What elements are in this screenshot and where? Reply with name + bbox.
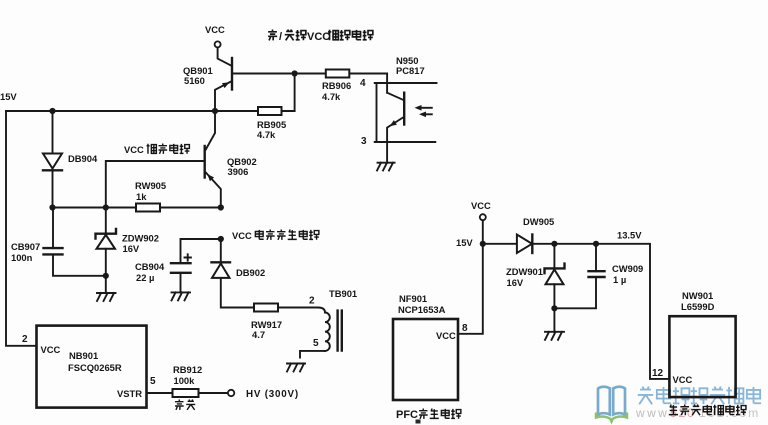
winding <box>325 313 330 351</box>
wire opto top rail <box>375 82 437 84</box>
node VCC generation junction <box>218 236 224 242</box>
label VCC电压产生电路 <box>232 230 319 242</box>
svg-text:DB902: DB902 <box>236 267 265 278</box>
svg-text:16V: 16V <box>123 243 140 254</box>
wire QB902 base path <box>106 161 205 208</box>
svg-text:15V: 15V <box>456 237 473 248</box>
wire pin4 drop <box>386 74 388 93</box>
IC NF901 NCP1653A box <box>393 319 458 400</box>
svg-text:VCC: VCC <box>124 144 144 155</box>
svg-text:2: 2 <box>309 296 315 307</box>
watermark book logo <box>596 387 627 422</box>
zener ZDW901 <box>545 244 565 332</box>
transistor QB901 <box>215 48 232 111</box>
svg-text:100n: 100n <box>11 252 33 263</box>
zener ZDW902 <box>96 208 117 294</box>
node junction ZDW902 <box>103 204 109 210</box>
wire opto bottom rail <box>375 141 436 143</box>
svg-text:FSCQ0265R: FSCQ0265R <box>68 362 122 373</box>
svg-text:L6599D: L6599D <box>681 301 715 312</box>
capacitor CB904 <box>171 239 221 292</box>
node junction CW909 top <box>593 241 599 247</box>
svg-text:22 µ: 22 µ <box>136 272 154 283</box>
svg-text:CB907: CB907 <box>11 241 40 252</box>
ground (optocoupler pin3) <box>377 163 395 171</box>
wire NB901 pin5 <box>147 392 229 394</box>
svg-text:VCC: VCC <box>232 230 252 241</box>
svg-text:5: 5 <box>313 338 319 349</box>
label title 开/关机VCC控制电路 <box>268 30 373 44</box>
terminal VCC circle right <box>480 214 486 220</box>
svg-text:RW905: RW905 <box>135 180 166 191</box>
svg-text:4: 4 <box>360 78 366 89</box>
svg-text:3: 3 <box>361 136 367 147</box>
svg-text:NF901: NF901 <box>399 293 427 304</box>
node junction 15V/DB904 <box>49 108 55 114</box>
svg-text:HV (300V): HV (300V) <box>246 389 299 400</box>
node junction 15V/QB901 emitter <box>212 108 218 114</box>
wire 13.5V rail <box>483 244 670 379</box>
node junction CB907/ZDW902 <box>103 273 109 279</box>
transistor QB902 <box>205 111 221 208</box>
phototransistor collector <box>387 93 403 100</box>
svg-text:ZDW901: ZDW901 <box>506 266 543 277</box>
node junction base/RB905 <box>292 70 298 76</box>
ground (ZDW901) <box>545 332 564 340</box>
label 主开关电源电路 <box>669 405 746 416</box>
svg-text:1 µ: 1 µ <box>613 274 626 285</box>
svg-text:DW905: DW905 <box>523 216 554 227</box>
svg-text:4.7k: 4.7k <box>322 91 341 102</box>
svg-text:100k: 100k <box>174 375 196 386</box>
core <box>338 311 342 351</box>
svg-text:15V: 15V <box>0 91 17 102</box>
svg-text:13.5V: 13.5V <box>617 230 642 241</box>
diode DB902 <box>212 239 326 313</box>
terminal VCC circle <box>215 41 221 47</box>
svg-text:RB906: RB906 <box>322 80 351 91</box>
wire pin5 to ground <box>300 351 325 358</box>
svg-text:TB901: TB901 <box>329 288 357 299</box>
IC NB901 FSCQ0265R box <box>37 326 147 408</box>
wire left vertical to NB901 pin2 <box>6 111 37 346</box>
svg-text:1k: 1k <box>136 191 147 202</box>
node junction QB902 emitter <box>218 204 224 210</box>
svg-text:VCC: VCC <box>41 344 61 355</box>
node junction ZDW901 top <box>551 241 557 247</box>
phototransistor base bar <box>403 93 405 125</box>
svg-text:5160: 5160 <box>184 75 205 86</box>
wire regulator rail y=207.5 <box>53 207 221 209</box>
resistor RB905 <box>258 107 282 115</box>
ground (ZDW902) <box>97 293 116 301</box>
diode DW905 <box>517 235 532 254</box>
svg-text:NB901: NB901 <box>69 350 98 361</box>
svg-text:PFC: PFC <box>396 409 418 421</box>
capacitor CB907 <box>44 208 106 276</box>
capacitor CW909 <box>554 244 604 308</box>
svg-text:www: www <box>635 406 669 420</box>
resistor RB912 <box>173 389 199 397</box>
svg-text:CB904: CB904 <box>135 261 165 272</box>
svg-text:DB904: DB904 <box>68 153 98 164</box>
svg-text:VCC: VCC <box>205 24 225 35</box>
label PFC产生电路 <box>396 409 461 422</box>
ground (TB901 pin5) <box>287 364 305 372</box>
resistor RW917 <box>254 304 278 312</box>
svg-text:3906: 3906 <box>228 166 249 177</box>
svg-text:VSTR: VSTR <box>117 388 142 399</box>
wire QB901 base line <box>232 73 387 75</box>
light arrows <box>418 107 432 109</box>
wire VCC drop to NF901 pin8 <box>458 220 483 333</box>
svg-text:12: 12 <box>652 368 664 379</box>
svg-text:2: 2 <box>22 334 28 345</box>
svg-text:RB912: RB912 <box>173 364 202 375</box>
svg-text:VCC: VCC <box>673 374 693 385</box>
scan speck <box>416 420 421 424</box>
label 启动 <box>175 400 195 410</box>
node junction ZDW901 bottom <box>551 305 557 311</box>
svg-text:CW909: CW909 <box>612 263 643 274</box>
svg-text:NCP1653A: NCP1653A <box>398 304 446 315</box>
svg-text:VCC: VCC <box>307 31 330 43</box>
node junction 15V right <box>480 241 486 247</box>
svg-text:ZDW902: ZDW902 <box>122 233 159 244</box>
watermark text 家电维修资料网 <box>638 387 761 405</box>
svg-text:PC817: PC817 <box>396 65 425 76</box>
resistor RW905 <box>136 204 160 212</box>
phototransistor emitter <box>387 118 403 163</box>
svg-text:/: / <box>279 31 282 43</box>
diode DB904 <box>43 111 62 208</box>
svg-text:5: 5 <box>150 376 156 387</box>
wire opto left edge <box>376 83 378 142</box>
svg-text:4.7k: 4.7k <box>257 129 276 140</box>
label VCC稳压电路 <box>124 144 189 156</box>
resistor RB906 <box>326 70 350 78</box>
svg-text:16V: 16V <box>507 277 524 288</box>
svg-text:NW901: NW901 <box>682 290 713 301</box>
wire 15V horizontal rail <box>6 110 295 112</box>
IC NW901 L6599D box <box>669 316 735 397</box>
svg-text:4.7: 4.7 <box>252 329 265 340</box>
svg-text:VCC: VCC <box>471 200 491 211</box>
svg-text:VCC: VCC <box>436 330 456 341</box>
svg-text:8: 8 <box>462 323 468 334</box>
node junction DB904/CB907 <box>49 204 55 210</box>
ground (CB904) <box>172 292 191 300</box>
terminal HV circle <box>228 390 234 396</box>
wire RB905 riser <box>294 74 296 112</box>
